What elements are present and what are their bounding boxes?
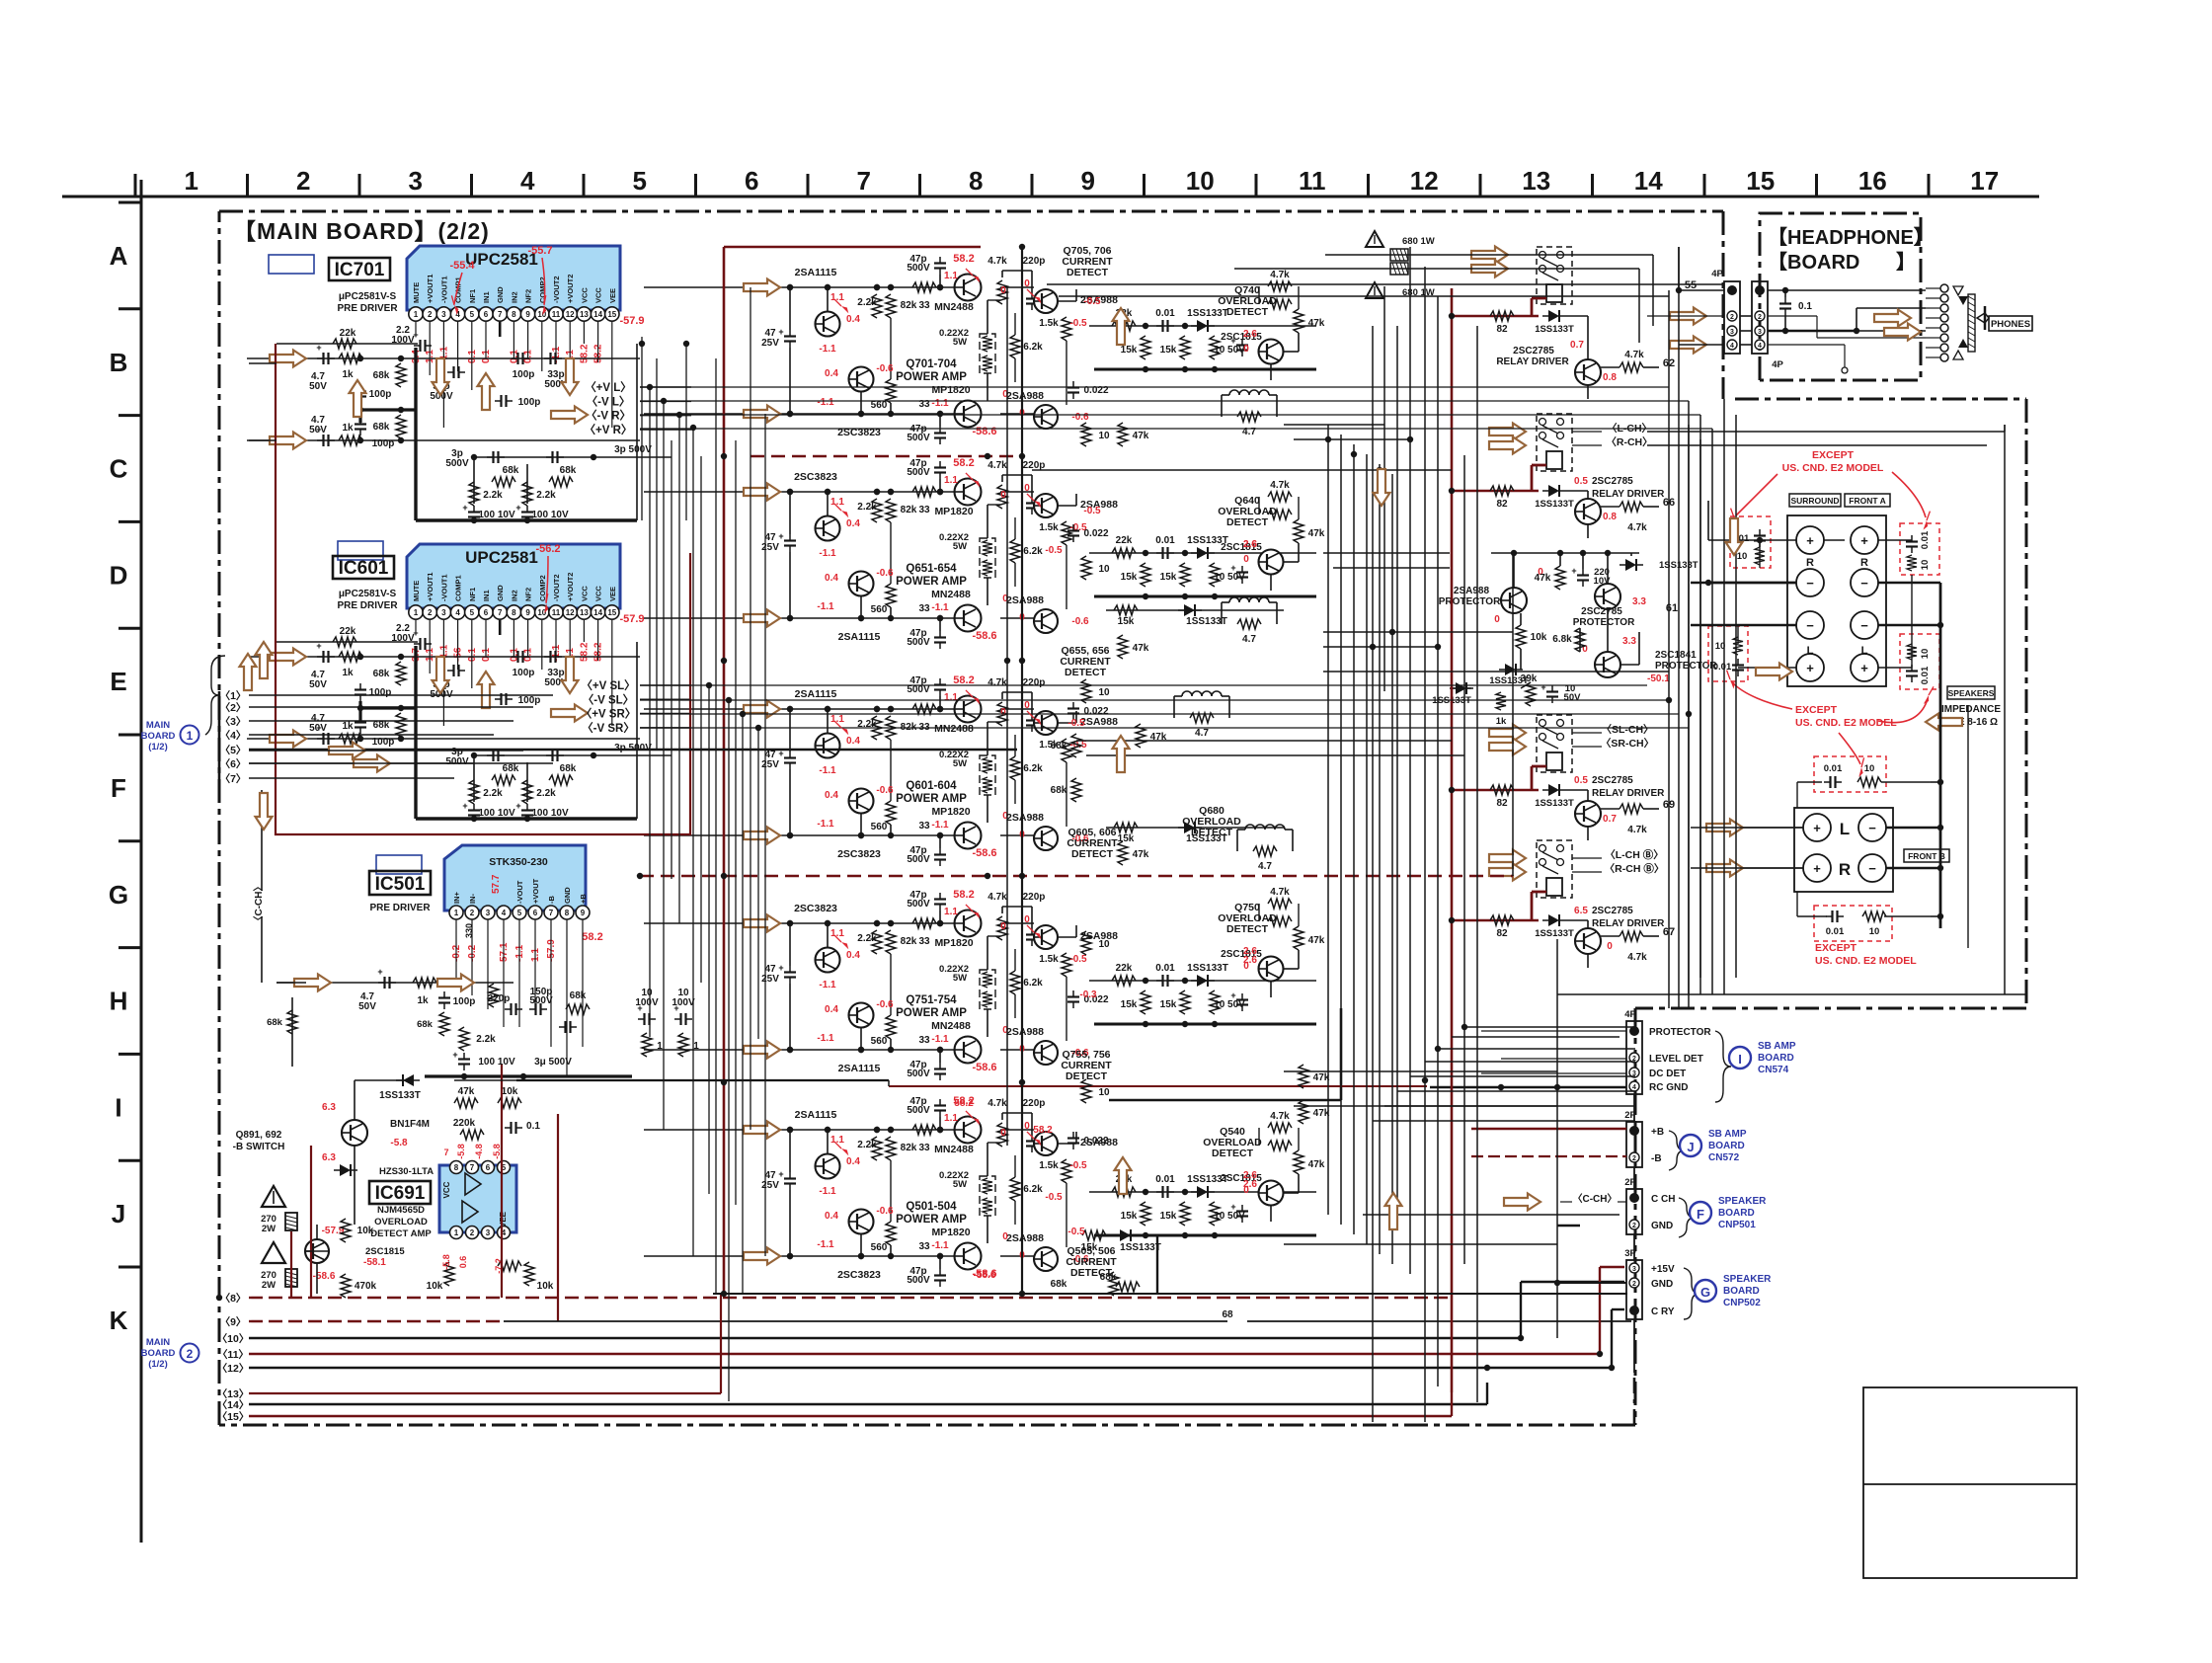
svg-text:500V: 500V — [445, 756, 469, 767]
svg-text:-50.1: -50.1 — [1647, 673, 1670, 684]
svg-text:82: 82 — [1496, 928, 1508, 939]
FRONT B label — [1904, 849, 1949, 862]
svg-text:500V: 500V — [907, 1069, 930, 1079]
IC pin drop wires — [415, 322, 417, 337]
47p 500V caps — [939, 893, 941, 900]
horizontal bus wire — [1284, 1070, 1557, 1072]
svg-text:1: 1 — [454, 909, 459, 917]
svg-text:POWER AMP: POWER AMP — [896, 1007, 967, 1019]
svg-text:58.2: 58.2 — [953, 253, 974, 265]
svg-text:0.1: 0.1 — [1798, 301, 1812, 312]
svg-text:5W: 5W — [953, 541, 967, 552]
svg-text:MN2488: MN2488 — [931, 1020, 971, 1032]
zobel dashed box (front B bottom) — [1814, 906, 1892, 941]
wire 22k feed row — [276, 343, 418, 345]
svg-text:0.1: 0.1 — [526, 1121, 540, 1132]
svg-text:47k: 47k — [1308, 528, 1325, 539]
red small pointer arrows sprinkled — [966, 269, 973, 276]
svg-text:5: 5 — [517, 909, 522, 917]
wire supply tag run — [640, 727, 1689, 729]
resistor 1.5k — [1062, 953, 1071, 977]
vertical bus wire — [1383, 286, 1385, 691]
svg-text:-58.6: -58.6 — [313, 1271, 336, 1282]
svg-text:57.7: 57.7 — [491, 874, 502, 894]
svg-text:1SS133T: 1SS133T — [1535, 798, 1574, 809]
svg-text:2SA988: 2SA988 — [1006, 812, 1044, 824]
transistor 2SA988 upper — [1034, 711, 1058, 735]
wire supply tag run — [640, 684, 1647, 686]
svg-text:-58.6: -58.6 — [972, 1062, 996, 1073]
svg-text:15k: 15k — [1160, 345, 1177, 356]
svg-text:50V: 50V — [309, 723, 327, 734]
transistor driver 2SC3823 — [849, 367, 874, 392]
svg-text:3p 500V: 3p 500V — [614, 743, 652, 753]
svg-text:500V: 500V — [529, 995, 553, 1006]
vertical feeder wire — [671, 440, 672, 879]
svg-text:12: 12 — [566, 608, 575, 617]
relay driver output resistor 4.7k 66 — [1619, 502, 1643, 512]
svg-text:10: 10 — [1186, 166, 1215, 196]
svg-text:-58.6: -58.6 — [974, 1270, 996, 1281]
vertical feeder wire — [641, 337, 643, 520]
wire supply tag run — [640, 400, 1689, 402]
svg-text:2: 2 — [1730, 314, 1734, 321]
svg-text:POWER AMP: POWER AMP — [896, 1214, 967, 1226]
svg-text:〈R-CH〉: 〈R-CH〉 — [1606, 436, 1652, 448]
svg-text:2.2k: 2.2k — [857, 502, 877, 513]
svg-text:DETECT: DETECT — [1212, 1148, 1254, 1159]
comparator row 22k 0.01 1SS133T — [1089, 325, 1316, 327]
svg-text:HZS30-1LTA: HZS30-1LTA — [379, 1166, 434, 1177]
bus wire 11 maroon — [249, 1353, 1600, 1355]
svg-text:SB AMP: SB AMP — [1758, 1041, 1796, 1052]
svg-text:16: 16 — [1858, 166, 1887, 196]
svg-text:10: 10 — [1098, 431, 1110, 441]
svg-text:+B: +B — [579, 894, 588, 904]
svg-text:1SS133T: 1SS133T — [1187, 308, 1228, 319]
svg-text:0.022: 0.022 — [1083, 1136, 1108, 1147]
svg-text:0.7: 0.7 — [1570, 340, 1584, 351]
speaker terminal + — [1796, 654, 1824, 681]
svg-text:2.2k: 2.2k — [857, 297, 877, 308]
svg-text:14: 14 — [593, 310, 602, 319]
svg-text:0: 0 — [1024, 483, 1030, 494]
speaker terminal + — [1851, 654, 1878, 681]
bottom thick gnd — [713, 1293, 1627, 1295]
svg-text:2SC2785: 2SC2785 — [1592, 775, 1633, 786]
47p 500V caps — [939, 461, 941, 468]
svg-text:VCC: VCC — [594, 586, 603, 601]
IC701 label box — [329, 258, 390, 280]
svg-text:-1.1: -1.1 — [817, 819, 834, 830]
svg-text:4: 4 — [1632, 1084, 1636, 1091]
svg-text:15: 15 — [607, 608, 616, 617]
svg-text:-0.6: -0.6 — [876, 785, 894, 796]
svg-text:BOARD: BOARD — [1708, 1141, 1745, 1151]
svg-text:33: 33 — [918, 936, 930, 947]
speaker zobel dashed box top-left — [1730, 516, 1771, 568]
0.1 cap — [1784, 297, 1786, 304]
svg-text:MP1820: MP1820 — [931, 1227, 970, 1238]
svg-text:IN2: IN2 — [510, 291, 518, 303]
output transistor MP1820 — [955, 823, 982, 849]
svg-text:POWER AMP: POWER AMP — [896, 576, 967, 588]
svg-text:4.7k: 4.7k — [1627, 825, 1647, 835]
svg-text:μPC2581V-S: μPC2581V-S — [339, 589, 397, 599]
warning triangle 680 1W upper — [1366, 231, 1383, 247]
svg-text:-B: -B — [547, 896, 556, 904]
svg-text:82: 82 — [1496, 798, 1508, 809]
svg-text:MP1820: MP1820 — [931, 806, 970, 818]
svg-text:IC501: IC501 — [375, 874, 426, 895]
svg-text:15k: 15k — [1121, 572, 1138, 583]
svg-text:47k: 47k — [1308, 935, 1325, 946]
svg-text:0: 0 — [1607, 941, 1613, 952]
MAIN BOARD dash-dot border — [219, 210, 1723, 213]
transistor 2SA988 upper — [1034, 925, 1058, 949]
IC501 blue outline rect (ref box) — [376, 855, 422, 874]
svg-text:(1/2): (1/2) — [148, 1359, 168, 1370]
svg-text:68k: 68k — [1051, 785, 1067, 796]
relay driver resistor 82 69 — [1471, 789, 1539, 791]
svg-text:-0.5: -0.5 — [1045, 545, 1063, 556]
input coupling row upper — [247, 656, 640, 658]
bus wire 12 — [249, 1367, 1612, 1369]
resistor 6.2k — [1010, 539, 1020, 563]
speaker terminal − — [1851, 569, 1878, 596]
front B terminal − — [1858, 854, 1886, 882]
svg-text:500V: 500V — [907, 433, 930, 443]
wires into CN572 maroon — [1471, 1128, 1626, 1130]
svg-text:DETECT: DETECT — [1066, 267, 1109, 278]
svg-text:220k: 220k — [453, 1118, 476, 1129]
svg-text:6: 6 — [484, 310, 489, 319]
svg-text:Q701-704: Q701-704 — [906, 358, 957, 370]
svg-text:0.01: 0.01 — [1920, 666, 1931, 684]
svg-text:〈C-CH〉: 〈C-CH〉 — [252, 882, 265, 926]
svg-text:12: 12 — [566, 310, 575, 319]
svg-text:15: 15 — [607, 310, 616, 319]
resistor 82k — [886, 294, 896, 318]
svg-text:6.2k: 6.2k — [1023, 546, 1043, 557]
svg-text:6.2k: 6.2k — [1023, 763, 1043, 774]
svg-text:68k: 68k — [560, 465, 577, 476]
svg-text:4.7k: 4.7k — [1270, 1111, 1290, 1122]
thick output rails — [1021, 247, 1023, 1294]
svg-text:-0.6: -0.6 — [876, 363, 894, 374]
svg-text:6: 6 — [484, 608, 489, 617]
resistor 270 2W block 2 — [285, 1269, 297, 1287]
svg-text:LEVEL DET: LEVEL DET — [1649, 1054, 1703, 1065]
svg-text:33: 33 — [918, 1241, 930, 1252]
resistor 2.2k — [872, 930, 882, 954]
svg-text:4.7: 4.7 — [1242, 634, 1256, 645]
op-amp IC701 UPC2581 pre driver block — [407, 246, 620, 310]
power amp input wire top — [644, 286, 955, 288]
cap 220p — [1031, 1135, 1033, 1142]
output transistor MN2488 — [955, 479, 982, 506]
IC501 STK350-230 pre driver block — [444, 845, 586, 911]
relay driver diode 1SS133T 69 — [1548, 784, 1559, 796]
svg-text:6.2k: 6.2k — [1023, 978, 1043, 989]
transistor 2SA988 lower — [1034, 827, 1058, 850]
maroon wires near IC691 — [290, 1231, 292, 1298]
left vertical dash line segments near border — [218, 691, 221, 780]
vertical feeder wire — [708, 685, 710, 1194]
svg-text:0.8: 0.8 — [1603, 372, 1617, 383]
zobel dashed box mid (front B top) — [1814, 756, 1886, 792]
svg-text:G: G — [109, 880, 128, 910]
svg-text:+: + — [377, 967, 382, 977]
svg-text:15k: 15k — [1160, 1211, 1177, 1222]
svg-text:1k: 1k — [417, 995, 429, 1006]
svg-text:-VOUT1: -VOUT1 — [439, 276, 448, 303]
svg-text:-0.5: -0.5 — [1069, 1160, 1087, 1171]
svg-text:3: 3 — [1632, 1266, 1636, 1273]
IC691 op amp block NJM4565D — [439, 1165, 516, 1232]
svg-text:NF1: NF1 — [468, 289, 477, 303]
power amp input wire top — [644, 491, 955, 493]
svg-text:+: + — [515, 503, 520, 513]
svg-text:D: D — [110, 560, 128, 590]
svg-text:RELAY DRIVER: RELAY DRIVER — [1592, 489, 1665, 500]
svg-text:2SA1115: 2SA1115 — [838, 631, 881, 643]
svg-text:2SC2785: 2SC2785 — [1592, 906, 1633, 916]
svg-text:47k: 47k — [1133, 431, 1149, 441]
svg-text:10k: 10k — [357, 1226, 374, 1236]
svg-text:+: + — [462, 801, 467, 811]
svg-text:NF1: NF1 — [468, 588, 477, 601]
svg-text:-1.1: -1.1 — [931, 820, 949, 831]
svg-text:IN1: IN1 — [482, 291, 491, 303]
transistor driver 2SA1115 — [816, 948, 840, 973]
svg-text:μPC2581V-S: μPC2581V-S — [339, 291, 397, 302]
svg-text:BOARD: BOARD — [1718, 1208, 1755, 1219]
svg-text:68k: 68k — [570, 990, 587, 1001]
svg-text:-1.1: -1.1 — [819, 1186, 836, 1197]
svg-text:2SC3823: 2SC3823 — [837, 848, 881, 860]
arrows into connector — [1670, 308, 1706, 325]
svg-text:COMP2: COMP2 — [538, 575, 547, 601]
svg-text:EXCEPT: EXCEPT — [1812, 449, 1855, 461]
svg-text:SPEAKER: SPEAKER — [1718, 1196, 1767, 1207]
IC701 blue outline rect (ref box) — [269, 255, 314, 274]
arrows near connector 1 — [329, 743, 365, 759]
FRONT B terminal box — [1794, 808, 1893, 892]
wire supply tag run — [640, 428, 1712, 430]
svg-text:4P: 4P — [1711, 269, 1723, 279]
svg-text:1SS133T: 1SS133T — [1120, 1242, 1161, 1253]
svg-text:0.4: 0.4 — [825, 573, 838, 584]
svg-text:EXCEPT: EXCEPT — [1815, 942, 1857, 954]
svg-text:9: 9 — [525, 310, 530, 319]
bus wire 15 — [249, 1415, 1452, 1417]
svg-text:15k: 15k — [1121, 345, 1138, 356]
svg-text:4: 4 — [502, 909, 507, 917]
svg-text:0.7: 0.7 — [1603, 814, 1617, 825]
relay driver diode 1SS133T 62 — [1548, 310, 1559, 322]
svg-text:】: 】 — [1896, 251, 1916, 274]
svg-text:0.6: 0.6 — [458, 1256, 468, 1269]
op-amp IC601 UPC2581 pre driver block — [407, 544, 620, 608]
transistor 2SC2785 relay driver 67 — [1575, 928, 1601, 954]
svg-text:1k: 1k — [1496, 716, 1507, 727]
svg-text:47k: 47k — [1308, 318, 1325, 329]
svg-text:2SC2785: 2SC2785 — [1592, 476, 1633, 487]
headphone jack contacts — [1940, 284, 1948, 292]
svg-text:-VOUT: -VOUT — [515, 880, 524, 904]
maroon loop around pre-driver ICs — [276, 344, 690, 834]
left mid horizontal runs — [249, 750, 523, 752]
PHONES label — [1989, 316, 2032, 331]
svg-text:560: 560 — [871, 822, 888, 832]
svg-text:-58.6: -58.6 — [972, 847, 996, 859]
svg-text:11: 11 — [1299, 166, 1326, 196]
svg-text:6: 6 — [745, 166, 758, 196]
svg-text:2SA988: 2SA988 — [1006, 390, 1044, 402]
svg-text:68k: 68k — [560, 763, 577, 774]
svg-text:−: − — [1806, 618, 1814, 633]
svg-text:3: 3 — [1758, 329, 1762, 336]
svg-text:F: F — [111, 773, 126, 803]
resistor 560 — [886, 1222, 896, 1245]
svg-text:-1.1: -1.1 — [817, 397, 834, 408]
svg-text:L: L — [1861, 645, 1868, 657]
svg-text:+: + — [778, 963, 783, 973]
svg-text:+: + — [1230, 563, 1235, 573]
47uF 25V cap — [789, 752, 791, 758]
svg-text:+VOUT: +VOUT — [531, 878, 540, 904]
resistor 1.5k — [1062, 739, 1071, 762]
svg-text:DETECT: DETECT — [1226, 306, 1269, 318]
svg-text:+: + — [452, 1050, 457, 1060]
svg-text:VCC: VCC — [594, 287, 603, 303]
svg-text:2SA1115: 2SA1115 — [795, 688, 837, 700]
svg-text:100p: 100p — [513, 668, 535, 678]
svg-text:6: 6 — [486, 1163, 491, 1172]
transistor driver 2SC3823 — [849, 1210, 874, 1234]
svg-text:0: 0 — [1024, 914, 1030, 925]
svg-text:6.2k: 6.2k — [1023, 342, 1043, 353]
svg-text:G: G — [1700, 1285, 1710, 1300]
svg-text:0.5: 0.5 — [1574, 476, 1588, 487]
47p 500V caps — [939, 257, 941, 264]
svg-text:+VOUT1: +VOUT1 — [426, 275, 434, 303]
horizontal bus wire — [1452, 1036, 1619, 1038]
svg-text:B: B — [110, 348, 128, 377]
svg-text:47k: 47k — [1133, 643, 1149, 654]
svg-text:10: 10 — [1098, 687, 1110, 698]
bus wire 14 — [249, 1403, 1487, 1405]
svg-text:100V: 100V — [391, 335, 415, 346]
svg-text:7: 7 — [549, 909, 554, 917]
svg-text:-1.1: -1.1 — [819, 765, 836, 776]
svg-text:〈-V L〉: 〈-V L〉 — [587, 394, 631, 408]
svg-text:VEE: VEE — [608, 587, 617, 601]
svg-text:3: 3 — [408, 166, 422, 196]
arrows into relay 1 — [1471, 247, 1508, 264]
resistor 560 — [886, 379, 896, 403]
svg-text:-0.5: -0.5 — [1045, 1192, 1063, 1203]
svg-text:4.7k: 4.7k — [987, 460, 1007, 471]
svg-text:25V: 25V — [761, 974, 779, 985]
svg-text:SPEAKERS: SPEAKERS — [1948, 688, 1995, 698]
maroon top feed — [724, 246, 981, 249]
svg-text:0.4: 0.4 — [825, 1211, 838, 1222]
transistor 2SC1815 overload — [305, 1239, 329, 1263]
svg-text:500V: 500V — [907, 637, 930, 648]
svg-text:【MAIN BOARD】(2/2): 【MAIN BOARD】(2/2) — [233, 218, 490, 244]
svg-text:〈SL-CH〉: 〈SL-CH〉 — [1601, 723, 1653, 736]
svg-text:5W: 5W — [953, 1179, 967, 1190]
hatched resistor 680 1W a — [1390, 249, 1408, 261]
svg-text:2: 2 — [296, 166, 310, 196]
svg-text:-58.6: -58.6 — [972, 630, 996, 642]
svg-text:15k: 15k — [1160, 572, 1177, 583]
svg-text:1: 1 — [414, 310, 419, 319]
svg-text:2: 2 — [428, 310, 433, 319]
0.22X2 5W emitter resistors — [980, 970, 995, 1009]
page ruler top line — [62, 196, 2039, 198]
svg-text:68k: 68k — [503, 763, 519, 774]
svg-text:4.7k: 4.7k — [1624, 350, 1644, 360]
svg-text:6.3: 6.3 — [322, 1152, 336, 1163]
power amp input wire bottom — [644, 834, 955, 836]
warning triangle 680 1W lower — [1366, 282, 1383, 298]
resistor 2.2k — [872, 716, 882, 740]
svg-text:13: 13 — [1522, 166, 1550, 196]
vertical feeder wire — [685, 344, 687, 520]
svg-text:〈-V SL〉: 〈-V SL〉 — [583, 692, 634, 706]
transistor 2SA988 upper — [1034, 289, 1058, 313]
input coupling row lower — [247, 738, 640, 740]
svg-text:7: 7 — [498, 310, 503, 319]
warning triangle 2 — [262, 1242, 285, 1263]
svg-text:GND: GND — [496, 286, 505, 303]
47uF 25V cap — [789, 534, 791, 541]
svg-text:K: K — [110, 1306, 128, 1335]
resistor 6.2k — [1010, 1177, 1020, 1201]
svg-text:0.4: 0.4 — [846, 314, 860, 325]
svg-text:2SA1115: 2SA1115 — [838, 1063, 881, 1074]
svg-text:220p: 220p — [1023, 1098, 1046, 1109]
power amp input wire top — [644, 922, 955, 924]
svg-text:PROTECTOR: PROTECTOR — [1573, 617, 1635, 628]
transistor 2SA988 protector — [1501, 588, 1527, 613]
diode 1SS133T overload — [403, 1074, 414, 1086]
svg-text:13: 13 — [580, 608, 589, 617]
svg-text:3: 3 — [486, 1228, 491, 1237]
svg-text:〈10〉: 〈10〉 — [217, 1332, 250, 1345]
svg-text:1: 1 — [184, 166, 197, 196]
svg-text:COMP1: COMP1 — [454, 575, 463, 601]
transistor 2SC1841 protector — [1595, 652, 1620, 677]
comparator row 22k 0.01 1SS133T — [1089, 552, 1316, 554]
transistor 2SA988 lower — [1034, 609, 1058, 633]
svg-text:+: + — [673, 1003, 678, 1013]
svg-text:US. CND. E2 MODEL: US. CND. E2 MODEL — [1815, 955, 1917, 967]
svg-text:500V: 500V — [445, 458, 469, 469]
svg-text:PROTECTOR: PROTECTOR — [1439, 596, 1501, 607]
input coupling row upper — [247, 357, 640, 359]
svg-text:-5.8: -5.8 — [492, 1144, 502, 1159]
vertical bus wire — [1512, 553, 1514, 876]
svg-text:〈-V R〉: 〈-V R〉 — [586, 409, 631, 423]
svg-text:2SC1841: 2SC1841 — [1655, 650, 1697, 661]
svg-text:BOARD: BOARD — [141, 731, 176, 742]
svg-text:-VOUT1: -VOUT1 — [439, 574, 448, 601]
IC691 area wires — [354, 1080, 355, 1120]
